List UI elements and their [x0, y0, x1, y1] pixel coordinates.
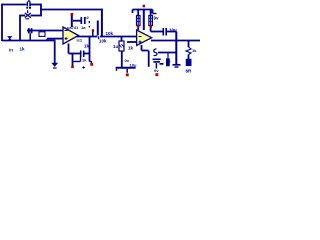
svg-text:1k: 1k [84, 44, 90, 49]
svg-text:1k: 1k [20, 47, 26, 52]
svg-text:10k: 10k [106, 31, 114, 36]
svg-text:1k: 1k [128, 46, 134, 51]
svg-text:10u: 10u [130, 62, 137, 67]
svg-text:ua741: ua741 [67, 25, 79, 30]
svg-text:c2: c2 [85, 16, 89, 20]
svg-text:10k: 10k [99, 39, 107, 44]
svg-text:1a: 1a [81, 25, 86, 30]
svg-text:in: in [9, 48, 13, 53]
svg-text:ic1: ic1 [77, 38, 83, 43]
svg-text:1k: 1k [192, 48, 197, 53]
svg-text:9v: 9v [154, 16, 160, 21]
svg-text:1n: 1n [166, 60, 171, 64]
svg-text:8R: 8R [186, 69, 193, 74]
svg-text:10u: 10u [169, 28, 177, 33]
svg-text:1k: 1k [82, 58, 87, 63]
svg-text:0v: 0v [154, 68, 159, 73]
svg-text:1u: 1u [113, 44, 119, 49]
